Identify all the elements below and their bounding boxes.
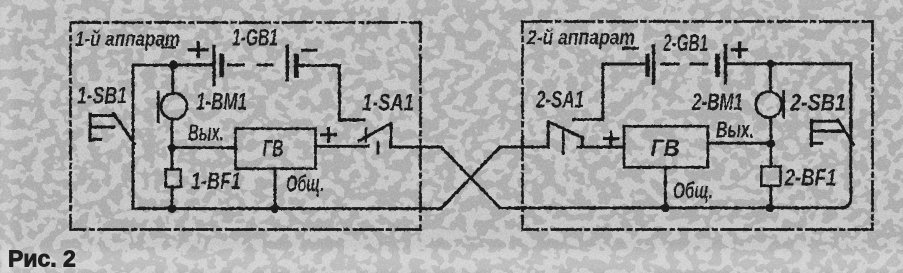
generator GV box apparatus 2 bbox=[624, 126, 708, 167]
wire: GV plus output to switch bbox=[316, 145, 369, 148]
battery 2-GB1 cell 1 long plate bbox=[652, 46, 655, 84]
svg-text:2-й аппарат: 2-й аппарат bbox=[526, 26, 635, 50]
battery 1-GB1 cell 2 long plate bbox=[286, 46, 289, 80]
wire: switch riser to line bbox=[390, 124, 393, 147]
microphone 1-BM1 circle bbox=[161, 93, 187, 119]
pushbutton 1-SB1 cap bar bbox=[89, 114, 92, 141]
svg-text:Общ.: Общ. bbox=[673, 178, 713, 204]
battery 2-GB1 cell 1 short plate bbox=[645, 56, 650, 75]
wire: bottom rail of apparatus 1 bbox=[133, 207, 441, 210]
pushbutton 2-SB1 middle line bbox=[812, 130, 843, 133]
wire: bottom rail of apparatus 2 bbox=[500, 206, 845, 209]
wire: top rail to microphone 2 bbox=[769, 64, 772, 92]
node: junction dot bottom rail left bbox=[168, 204, 177, 213]
label: plus sign at GV input apparatus 2 bbox=[604, 132, 617, 145]
svg-text:1-SA1: 1-SA1 bbox=[362, 90, 414, 117]
wire: battery middle dash 2 bbox=[691, 63, 707, 66]
label: minus sign of battery 2-GB1 bbox=[624, 47, 638, 50]
svg-text:2-SA1: 2-SA1 bbox=[535, 87, 584, 114]
node: junction dot bottom rail right bbox=[765, 203, 774, 212]
svg-text:2-BM1: 2-BM1 bbox=[691, 89, 743, 116]
switch 1-SA1 lever bbox=[359, 124, 391, 141]
wire: battery middle dash 2 bbox=[258, 64, 272, 67]
enclosure box apparatus 2 (dash-dot border) bbox=[523, 22, 873, 230]
wire: GV output to Vykh node 2 bbox=[708, 142, 771, 145]
wire: Vykh node to GV box bbox=[172, 146, 236, 149]
wire: top rail from rail corner to battery bbox=[133, 64, 212, 67]
wire: GV common to bottom rail 2 bbox=[664, 167, 667, 207]
svg-text:Вых.: Вых. bbox=[716, 117, 754, 143]
pushbutton 2-SB1 bottom line bbox=[812, 142, 822, 145]
wire: switch to GV box apparatus 2 bbox=[578, 146, 624, 149]
battery 1-GB1 cell 2 short plate bbox=[294, 56, 299, 76]
wire: microphone 2 to Vykh node 2 bbox=[769, 117, 772, 143]
node: junction dot GV common bbox=[271, 204, 280, 213]
microphone 1-BM1 membrane bar bbox=[157, 92, 160, 122]
wire: line into apparatus 2 top bbox=[500, 146, 548, 149]
pushbutton 1-SB1 lever bbox=[114, 114, 135, 144]
svg-text:ГВ: ГВ bbox=[651, 135, 680, 162]
switch 2-SA1 lever bbox=[549, 122, 583, 138]
switch 1-SA1 fixed contact tick 2 bbox=[377, 142, 380, 153]
battery 1-GB1 cell 1 long plate bbox=[212, 47, 215, 85]
pushbutton 1-SB1 bottom line bbox=[90, 138, 101, 141]
node: junction dot Vykh output node 2 bbox=[767, 139, 775, 147]
pushbutton 1-SB1 middle line bbox=[90, 126, 114, 129]
microphone 2-BM1 circle bbox=[756, 92, 782, 118]
svg-text:Общ.: Общ. bbox=[286, 171, 324, 197]
wire: battery middle dash 1 bbox=[662, 63, 678, 66]
wire: Vykh node 2 down to telephone 2-BF1 bbox=[770, 143, 773, 166]
wire: telephone 2-BF1 to bottom rail bbox=[770, 186, 773, 208]
pushbutton 1-SB1 top line bbox=[90, 114, 115, 117]
wire: battery branch of switch 2-SA1 bbox=[574, 64, 603, 120]
wire: crossing diagonal bottom-left to top-right bbox=[441, 147, 500, 209]
wire: microphone to Vykh node bbox=[170, 119, 173, 147]
label: underline of letter t in apparatus 2 title / battery minus bbox=[623, 47, 638, 50]
svg-text:ГВ: ГВ bbox=[263, 136, 284, 163]
switch 2-SA1 fixed contact tick 2 bbox=[562, 143, 565, 153]
generator GV box apparatus 1 bbox=[236, 129, 316, 169]
label: plus sign at GV output bbox=[322, 128, 336, 142]
wire: Vykh node down to telephone 1-BF1 bbox=[171, 148, 174, 170]
wire: telephone 1-BF1 to bottom rail bbox=[171, 187, 174, 209]
svg-text:1-BM1: 1-BM1 bbox=[196, 89, 247, 116]
node: junction dot top rail / microphone bbox=[169, 61, 178, 70]
node: junction dot Vykh output node bbox=[168, 143, 176, 151]
label: plus sign of battery 1-GB1 bbox=[190, 43, 208, 57]
wire: line out of apparatus 1 top bbox=[391, 146, 441, 149]
pushbutton 2-SB1 cap bar bbox=[810, 120, 813, 146]
wire: crossing diagonal top-left to bottom-right bbox=[441, 147, 500, 208]
wire: battery plus to right rail corner bbox=[727, 62, 851, 65]
svg-text:Рис. 2: Рис. 2 bbox=[8, 246, 76, 272]
svg-text:1-BF1: 1-BF1 bbox=[191, 168, 241, 195]
svg-text:Вых.: Вых. bbox=[188, 120, 224, 146]
switch 2-SA1 riser bbox=[547, 122, 550, 148]
node: junction dot GV common 2 bbox=[661, 203, 670, 212]
wire: top rail to battery 2-GB1 bbox=[603, 63, 644, 66]
label: plus sign of battery 2-GB1 bbox=[733, 44, 747, 57]
telephone 2-BF1 rectangle bbox=[761, 167, 780, 186]
svg-text:2-SB1: 2-SB1 bbox=[789, 90, 846, 117]
svg-text:2-BF1: 2-BF1 bbox=[784, 165, 837, 192]
enclosure box apparatus 1 (dash-dot border) bbox=[71, 23, 421, 230]
svg-text:1-SB1: 1-SB1 bbox=[77, 83, 127, 110]
battery 2-GB1 cell 2 short plate bbox=[715, 56, 720, 75]
battery 2-GB1 cell 2 long plate bbox=[724, 46, 727, 84]
wire: top rail to microphone bbox=[171, 65, 174, 94]
wire: GV common to bottom rail bbox=[274, 169, 277, 209]
svg-text:2-GB1: 2-GB1 bbox=[662, 30, 708, 57]
battery 1-GB1 cell 1 short plate bbox=[219, 56, 224, 75]
switch 2-SA1 fixed contact tick 1 bbox=[562, 128, 565, 140]
wire: right inner rail of apparatus 2 bbox=[841, 64, 851, 208]
telephone 1-BF1 rectangle bbox=[166, 169, 181, 187]
svg-text:1-GB1: 1-GB1 bbox=[232, 25, 278, 52]
node: junction dot top rail / microphone 2 bbox=[766, 60, 774, 68]
pushbutton 2-SB1 top line bbox=[812, 120, 839, 123]
wire: switch 2-SA1 tip connector bbox=[581, 137, 584, 147]
label: underline of letter t in apparatus 1 title bbox=[161, 46, 176, 48]
microphone 2-BM1 membrane bar bbox=[782, 92, 785, 118]
wire: battery minus to corner, down to switch bbox=[298, 66, 364, 121]
label: minus sign of battery 1-GB1 bbox=[303, 49, 316, 52]
pushbutton 2-SB1 lever bbox=[838, 120, 854, 145]
wire: battery middle dash 1 bbox=[229, 64, 244, 67]
switch 1-SA1 fixed contact tick 1 bbox=[365, 129, 368, 141]
wire: left inner rail of apparatus 1 bbox=[132, 65, 135, 209]
